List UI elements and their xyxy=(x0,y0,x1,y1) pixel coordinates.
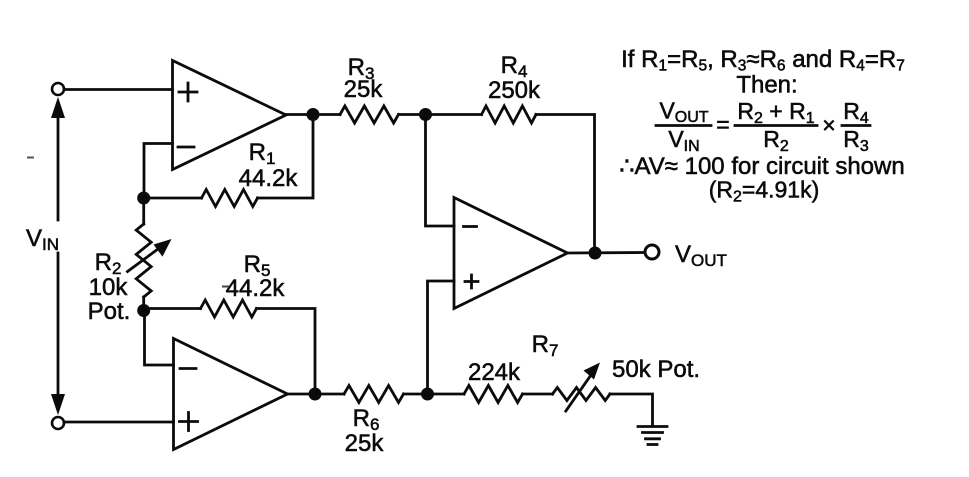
annotation condition line xyxy=(621,46,905,75)
op-amp U3 xyxy=(454,198,568,309)
wire R7 to pot xyxy=(523,393,553,396)
wire R6 to R7 xyxy=(404,393,465,396)
node D junction R2/R5 xyxy=(137,304,150,317)
wire pot to ground xyxy=(610,394,653,426)
svg-text:25k: 25k xyxy=(344,76,384,103)
node A junction R3/R4 xyxy=(419,108,432,121)
node U2 output junction xyxy=(309,388,322,401)
svg-text:Then:: Then: xyxy=(736,72,797,99)
input terminal bottom xyxy=(52,417,64,429)
svg-text:50k Pot.: 50k Pot. xyxy=(612,356,700,383)
label R5 value xyxy=(226,251,286,302)
node U1 output junction xyxy=(307,108,320,121)
annotation Then: xyxy=(736,72,797,99)
svg-text:R2 + R1: R2 + R1 xyxy=(737,98,814,127)
label R7 value xyxy=(468,331,558,386)
wire R1 to node C xyxy=(144,197,202,200)
label VIN xyxy=(26,225,59,254)
annotation R2 value xyxy=(709,177,820,206)
wire node B to U3 non-inverting input xyxy=(428,281,455,394)
potentiometer 50k xyxy=(553,363,611,412)
svg-text:Pot.: Pot. xyxy=(88,298,131,325)
wire R4 to output node xyxy=(536,115,595,254)
label R1 value xyxy=(239,139,299,192)
resistor R3 xyxy=(340,106,399,123)
potentiometer R2 xyxy=(128,198,172,311)
svg-text:=: = xyxy=(716,112,729,138)
resistor R7 xyxy=(464,386,523,403)
formula R4/R3 xyxy=(842,98,870,155)
label R3 value xyxy=(344,54,384,103)
label R6 value xyxy=(345,405,385,457)
output terminal VOUT xyxy=(645,245,659,259)
node B junction R6/R7 xyxy=(421,388,434,401)
formula VOUT/VIN xyxy=(656,98,730,156)
label 50k Pot. xyxy=(612,356,700,383)
VIN source arrow line xyxy=(51,97,65,415)
wire bottom terminal to U2 + input xyxy=(64,421,174,424)
formula (R2+R1)/R2 xyxy=(735,98,836,155)
svg-text:×: × xyxy=(822,112,835,138)
label R4 value xyxy=(488,52,541,104)
wire node A to U3 inverting input xyxy=(426,115,455,227)
label VOUT xyxy=(675,241,727,270)
svg-text:44.2k: 44.2k xyxy=(239,165,299,192)
wire R3 to R4 xyxy=(399,113,482,116)
annotation AV xyxy=(619,153,904,180)
node C junction R1/R2 xyxy=(137,192,150,205)
svg-text:25k: 25k xyxy=(345,430,385,457)
svg-text:44.2k: 44.2k xyxy=(226,275,286,302)
ground xyxy=(638,427,667,445)
resistor R1 xyxy=(202,190,258,207)
op-amp U2 xyxy=(174,339,288,450)
wire U1 inverting input xyxy=(144,144,173,199)
resistor R5 xyxy=(144,300,315,394)
wire U1 output down to R1 xyxy=(258,115,314,199)
wire U1 output to node xyxy=(286,113,340,116)
svg-text:250k: 250k xyxy=(488,77,541,104)
resistor R4 xyxy=(482,106,537,123)
scan artifact tick near R5 label xyxy=(222,286,229,288)
node U3 output junction xyxy=(589,247,602,260)
svg-text:224k: 224k xyxy=(468,359,521,386)
input terminal top xyxy=(52,83,64,95)
label R2 value xyxy=(88,249,131,325)
wire U2 output to R6 xyxy=(288,393,345,396)
wire U3 output to VOUT terminal xyxy=(568,251,646,254)
svg-text:(R2=4.91k): (R2=4.91k) xyxy=(709,177,820,206)
scan artifact dash xyxy=(27,157,34,159)
op-amp U1 xyxy=(173,61,287,170)
resistor R6 xyxy=(344,386,404,403)
wire top terminal to op-amp U1 + input xyxy=(64,88,173,91)
svg-text:10k: 10k xyxy=(89,274,129,301)
wire node D to U2 inverting input xyxy=(145,311,174,366)
